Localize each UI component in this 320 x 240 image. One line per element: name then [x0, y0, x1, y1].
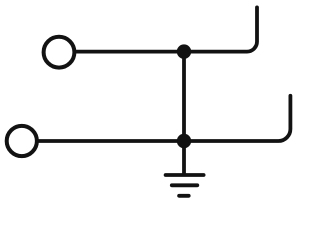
ground symbol: middle bar — [172, 183, 198, 187]
ground symbol: top bar — [166, 173, 204, 177]
ground symbol: bottom bar — [179, 194, 189, 198]
junction node (bottom, on vertical trunk) — [177, 134, 191, 148]
junction node (top, on vertical trunk) — [177, 44, 191, 58]
terminal contact circle (bottom-left) — [7, 126, 37, 156]
wire: bottom horizontal from circle to right curl — [37, 96, 290, 141]
wire: vertical trunk joining both junctions down to ground — [182, 52, 186, 175]
terminal contact circle (top-left) — [44, 37, 75, 68]
wire: top horizontal from circle to right curl — [74, 7, 257, 51]
